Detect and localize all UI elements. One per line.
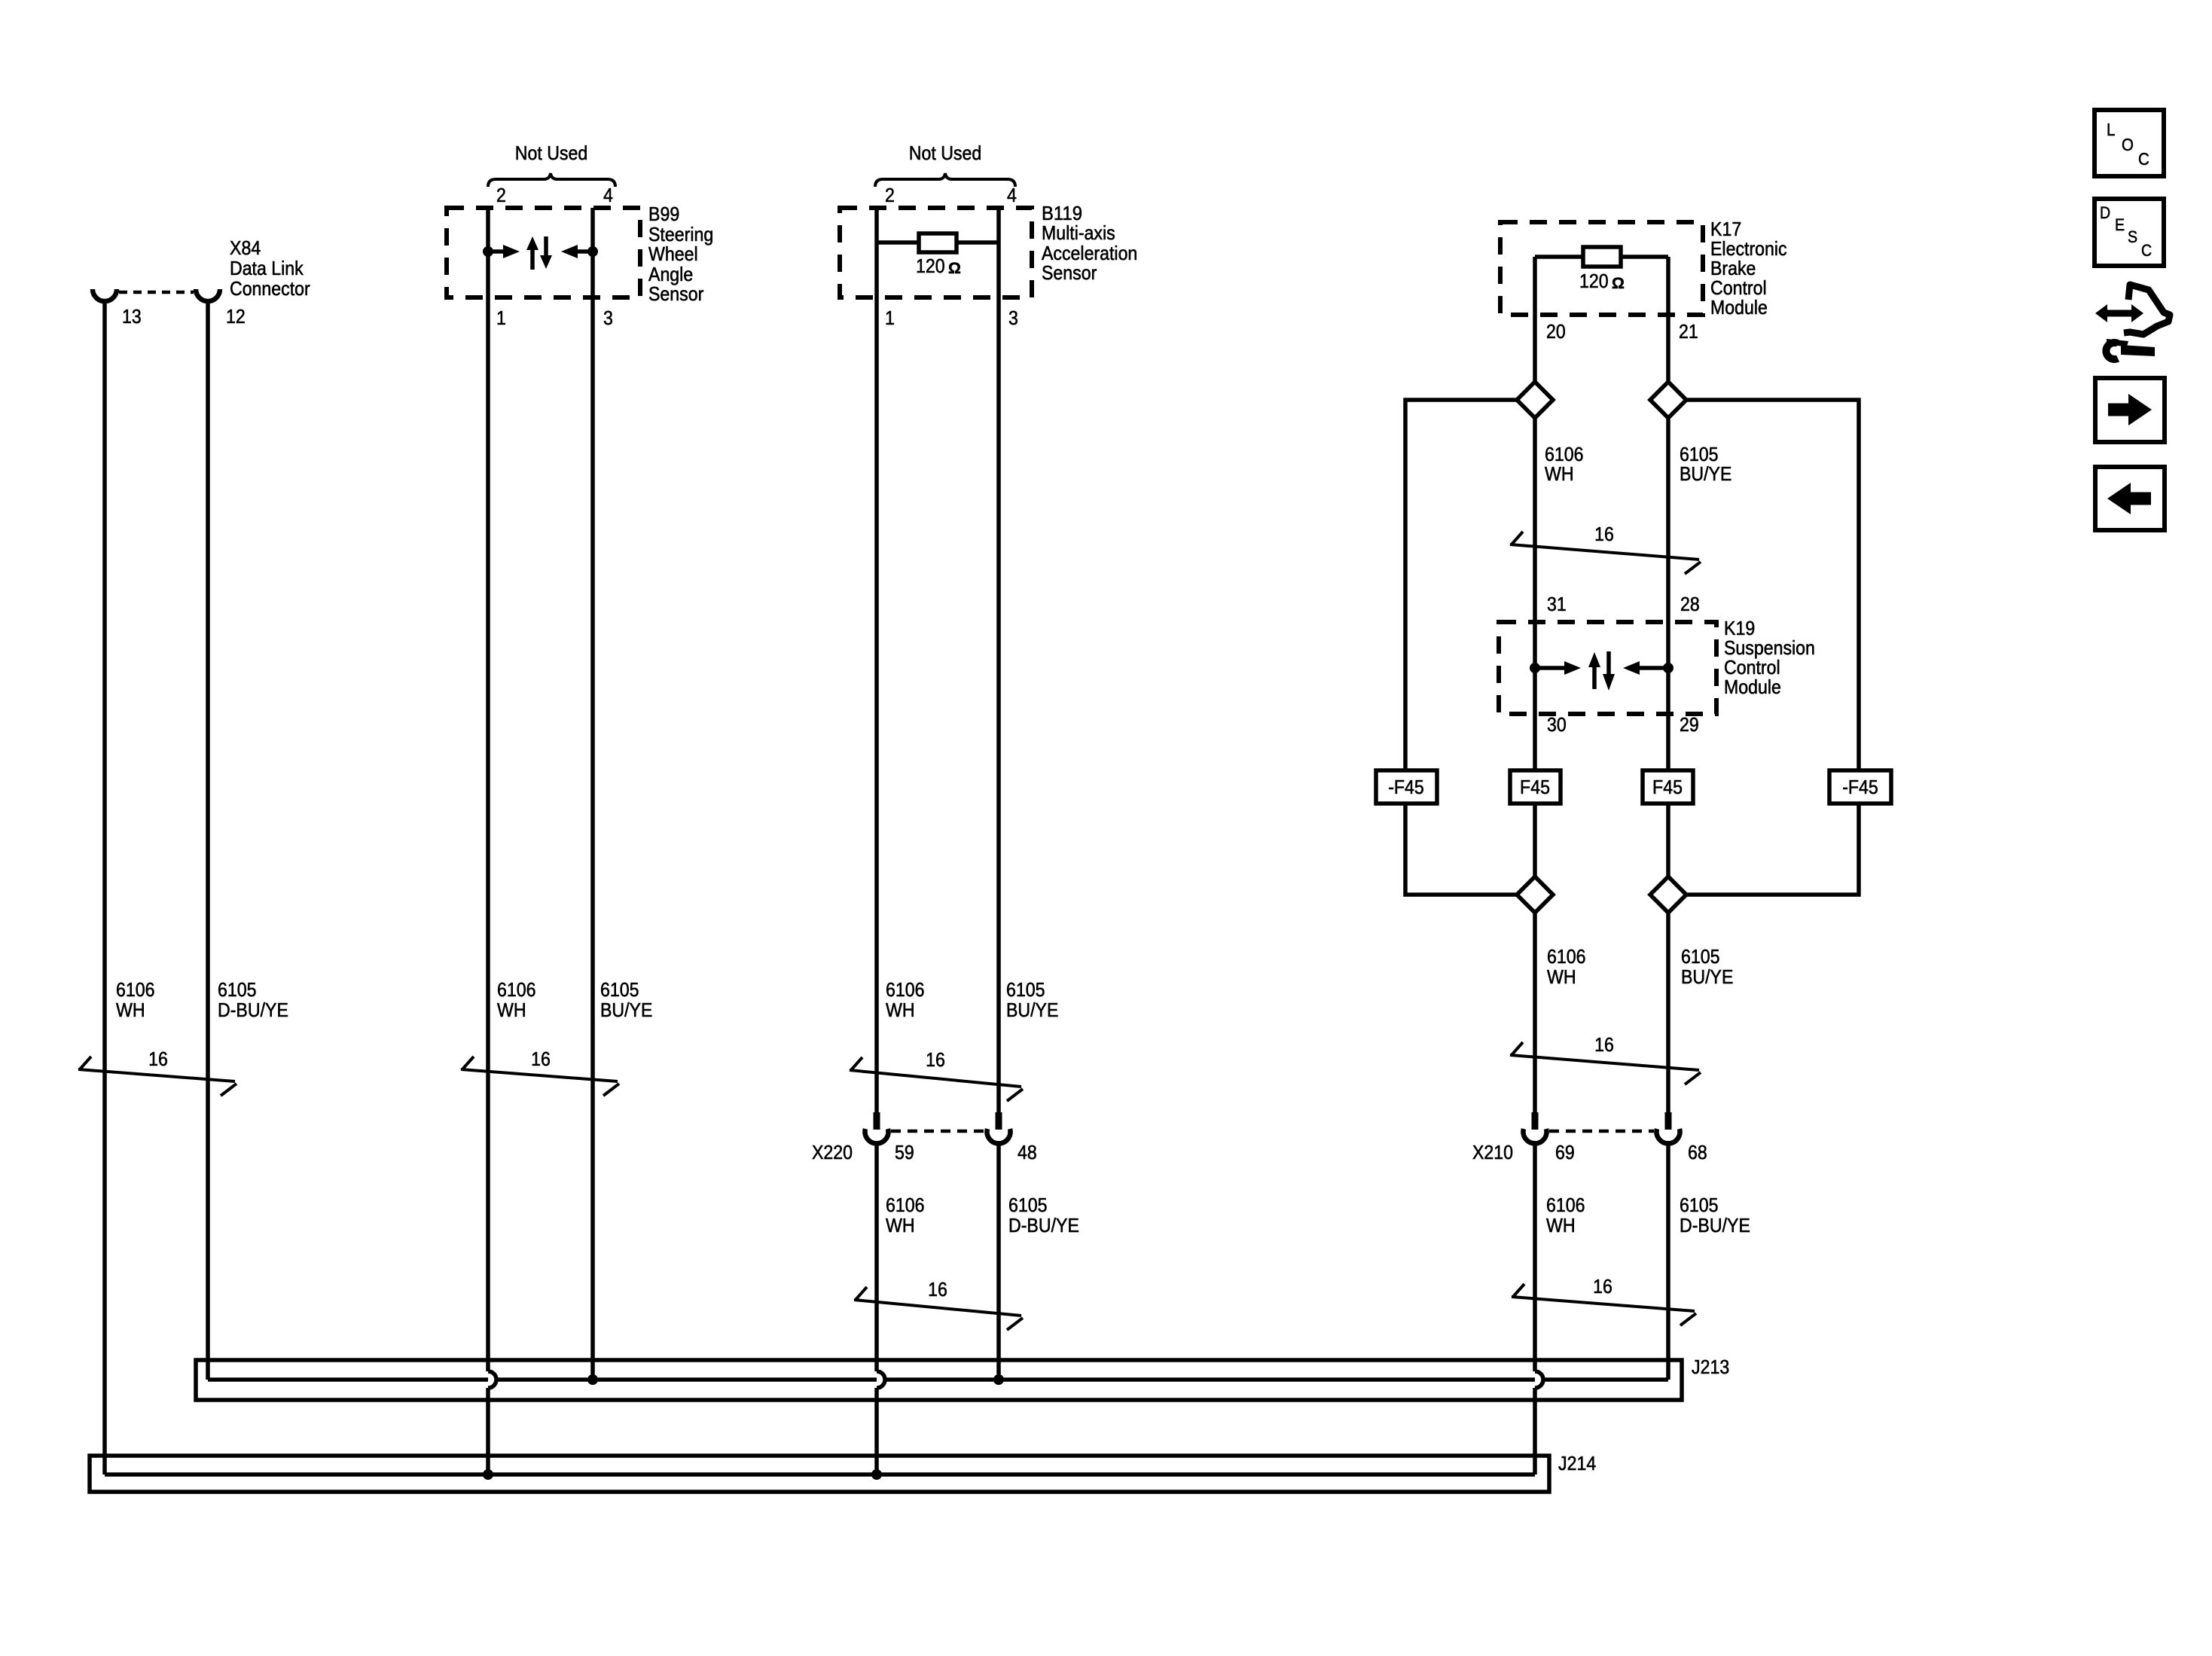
svg-text:Wheel: Wheel: [648, 242, 698, 265]
wire B119 internal resistor link: [877, 240, 999, 245]
svg-text:20: 20: [1546, 320, 1566, 343]
svg-text:3: 3: [603, 306, 613, 329]
svg-text:E: E: [2115, 215, 2125, 234]
fuse box F45 left: [1510, 770, 1561, 804]
svg-text:6105: 6105: [1681, 945, 1720, 968]
node B99 internal dot pin1: [483, 246, 493, 257]
svg-text:2: 2: [885, 184, 895, 206]
svg-text:120: 120: [1579, 270, 1609, 292]
svg-text:2: 2: [496, 184, 506, 206]
svg-text:21: 21: [1679, 320, 1698, 343]
wire left loop through -F45: [1405, 400, 1518, 895]
svg-text:WH: WH: [1546, 1214, 1576, 1237]
svg-text:6106: 6106: [886, 978, 925, 1001]
svg-text:WH: WH: [497, 999, 526, 1021]
svg-text:D-BU/YE: D-BU/YE: [1008, 1214, 1079, 1237]
svg-text:D: D: [2100, 203, 2110, 222]
svg-text:6105: 6105: [1680, 1194, 1719, 1216]
wire K17 internal resistor link: [1535, 255, 1668, 259]
svg-text:6106: 6106: [1546, 1194, 1585, 1216]
wire J214 internal bus: [105, 1472, 1535, 1477]
icon LOC box: [2095, 110, 2164, 176]
value 120 ohm label (K17): [1579, 270, 1625, 292]
svg-text:Multi-axis: Multi-axis: [1042, 221, 1115, 244]
node junction dot B119-1 wire on J214: [871, 1469, 882, 1480]
icon forward arrow box: [2095, 378, 2165, 442]
connector X210 male pin 68: [1665, 1112, 1672, 1130]
svg-text:16: 16: [531, 1048, 551, 1070]
node K19 internal dot pin31: [1530, 663, 1540, 673]
svg-text:D-BU/YE: D-BU/YE: [1680, 1214, 1750, 1237]
svg-text:WH: WH: [116, 999, 145, 1021]
svg-text:6106: 6106: [886, 1194, 925, 1216]
svg-text:29: 29: [1680, 713, 1699, 736]
svg-text:Sensor: Sensor: [648, 282, 704, 305]
svg-text:3: 3: [1008, 306, 1018, 329]
svg-text:28: 28: [1680, 593, 1700, 615]
fuse box F45 right: [1643, 770, 1693, 804]
splice pack J214 box: [90, 1456, 1549, 1492]
connector X210 male pin 69: [1532, 1112, 1539, 1130]
svg-text:12: 12: [226, 305, 246, 328]
svg-text:Connector: Connector: [230, 277, 310, 300]
resistor 120 ohm (B119): [919, 233, 956, 252]
K19 internal down arrow: [1606, 651, 1611, 676]
K19 internal up arrow: [1592, 666, 1597, 689]
node B99 internal dot pin3: [587, 246, 598, 257]
svg-text:-F45: -F45: [1842, 776, 1878, 798]
svg-text:6105: 6105: [600, 978, 639, 1001]
B99 internal left-pointing arrow: [578, 249, 593, 254]
value 120 ohm label (B119): [916, 255, 961, 277]
svg-text:X210: X210: [1472, 1141, 1513, 1163]
node junction dot B119-3 wire on J213: [993, 1374, 1004, 1385]
wire 6106 WH from X84 pin 13 to J214: [102, 303, 107, 1475]
svg-text:C: C: [2141, 241, 2152, 260]
connector X220 dashed link: [891, 1130, 984, 1133]
svg-text:BU/YE: BU/YE: [600, 999, 652, 1021]
wire 6105 D-BU/YE from X84 pin 12 to J213: [206, 303, 210, 1380]
svg-text:59: 59: [895, 1141, 914, 1163]
svg-text:WH: WH: [1545, 462, 1574, 485]
connector X84 dashed link: [119, 291, 194, 294]
node K19 internal dot pin28: [1663, 663, 1673, 673]
B99 Not Used bracket: [488, 173, 615, 187]
connector X84 hook pin 13: [93, 289, 117, 301]
svg-text:68: 68: [1688, 1141, 1707, 1163]
svg-text:16: 16: [926, 1048, 945, 1071]
wire hop of B99-1 wire over J213 bus: [488, 1371, 496, 1388]
svg-text:16: 16: [1594, 523, 1614, 545]
svg-text:Data Link: Data Link: [230, 257, 304, 279]
connector X220 hook 59: [865, 1129, 889, 1143]
icon back arrow box: [2095, 467, 2165, 530]
connector X210 hook 68: [1656, 1129, 1680, 1143]
icon DESC box: [2095, 199, 2164, 266]
label wire 6106 WH mid: [1547, 945, 1586, 988]
svg-text:O: O: [2122, 135, 2134, 154]
svg-text:Ω: Ω: [1612, 275, 1625, 292]
wire 6106 WH from B99 pin 1 to J214 (hops J213): [486, 208, 490, 1475]
svg-text:4: 4: [603, 184, 613, 206]
gauge 16 marker below X220: [854, 1278, 1023, 1330]
node splice diamond upper right: [1650, 382, 1686, 418]
resistor 120 ohm (K17): [1583, 247, 1621, 267]
svg-text:31: 31: [1547, 593, 1567, 615]
svg-text:69: 69: [1555, 1141, 1575, 1163]
label wire 6106 WH below X210: [1546, 1194, 1585, 1237]
svg-text:J213: J213: [1692, 1356, 1729, 1378]
svg-text:WH: WH: [886, 999, 915, 1021]
svg-text:Ω: Ω: [948, 260, 961, 277]
svg-text:1: 1: [496, 306, 506, 329]
svg-text:C: C: [2138, 149, 2149, 169]
svg-text:1: 1: [885, 306, 895, 329]
sensor B119 dashed box: [840, 208, 1032, 297]
svg-text:4: 4: [1007, 184, 1017, 206]
svg-text:X220: X220: [812, 1141, 853, 1163]
svg-text:120: 120: [916, 255, 945, 277]
svg-text:WH: WH: [886, 1214, 915, 1237]
svg-text:BU/YE: BU/YE: [1006, 999, 1058, 1021]
gauge 16 marker K17-K19: [1510, 523, 1701, 574]
svg-text:6105: 6105: [1008, 1194, 1048, 1216]
label B99 Steering Wheel Angle Sensor: [648, 203, 713, 305]
label wire 6105 D-BU/YE below X220: [1008, 1194, 1079, 1237]
K19 internal left-pointing arrow: [1640, 666, 1668, 670]
connector X220 male pin 59: [874, 1112, 880, 1130]
gauge 16 marker B99 pair: [461, 1048, 619, 1096]
label B119 Multi-axis Acceleration Sensor: [1042, 202, 1137, 284]
label wire 6106 WH left pair: [116, 978, 155, 1021]
connector X210 dashed link: [1549, 1130, 1654, 1133]
gauge 16 marker above X210: [1510, 1033, 1701, 1084]
svg-text:F45: F45: [1652, 776, 1683, 798]
svg-text:6106: 6106: [497, 978, 536, 1001]
svg-text:6105: 6105: [218, 978, 257, 1001]
node junction dot B99-1 wire on J214: [483, 1469, 493, 1480]
svg-text:16: 16: [148, 1048, 168, 1070]
label wire 6106 WH below X220: [886, 1194, 925, 1237]
module K17 dashed box: [1500, 222, 1703, 315]
label wire 6105 BU/YE mid: [1681, 945, 1733, 988]
node splice diamond lower right: [1650, 877, 1686, 913]
svg-text:WH: WH: [1547, 965, 1576, 988]
label wire 6105 BU/YE B99 pair: [600, 978, 652, 1021]
B99 internal right-pointing arrow: [488, 249, 503, 254]
svg-text:F45: F45: [1520, 776, 1550, 798]
K19 internal right-pointing arrow: [1535, 666, 1564, 670]
svg-text:S: S: [2128, 227, 2137, 246]
label K17 Electronic Brake Control Module: [1710, 218, 1787, 319]
svg-text:48: 48: [1018, 1141, 1037, 1163]
svg-text:BU/YE: BU/YE: [1680, 462, 1731, 485]
label wire 6105 D-BU/YE left pair: [218, 978, 288, 1021]
module K19 dashed box: [1499, 622, 1716, 714]
svg-text:30: 30: [1547, 713, 1567, 736]
gauge 16 marker B119 pair: [850, 1048, 1023, 1101]
wire hop of X210-69 wire over J213 bus: [1535, 1371, 1543, 1388]
svg-text:J214: J214: [1558, 1452, 1596, 1475]
fuse box -F45 right: [1829, 770, 1891, 804]
label wire 6106 WH B119 pair: [886, 978, 925, 1021]
wire 6105 BU/YE from B99 pin 3 to J213: [590, 208, 595, 1380]
svg-text:Module: Module: [1724, 676, 1781, 698]
label wire 6105 D-BU/YE below X210: [1680, 1194, 1750, 1237]
svg-text:L: L: [2107, 120, 2116, 139]
node splice diamond upper left: [1517, 382, 1553, 418]
connector X210 hook 69: [1524, 1129, 1547, 1143]
sensor B99 dashed box: [447, 208, 640, 297]
connector X220 hook 48: [987, 1129, 1011, 1143]
svg-text:X84: X84: [230, 236, 261, 259]
B99 internal down arrow: [544, 236, 548, 257]
svg-text:6106: 6106: [1547, 945, 1586, 968]
connector X84 hook pin 12: [196, 289, 220, 301]
connector X220 male pin 48: [996, 1112, 1002, 1130]
icon pointer with double arrow and wrench: [2095, 285, 2170, 359]
svg-text:Sensor: Sensor: [1042, 261, 1097, 284]
svg-text:16: 16: [1594, 1033, 1614, 1056]
label wire 6105 BU/YE B119 pair: [1006, 978, 1058, 1021]
label X84 Data Link Connector: [230, 236, 310, 300]
svg-text:6106: 6106: [116, 978, 155, 1001]
B99 internal up arrow: [530, 249, 535, 270]
svg-text:-F45: -F45: [1388, 776, 1424, 798]
label K19 Suspension Control Module: [1724, 617, 1815, 698]
svg-text:16: 16: [1593, 1275, 1612, 1298]
svg-text:D-BU/YE: D-BU/YE: [218, 999, 288, 1021]
label wire 6106 WH upper: [1545, 443, 1584, 485]
label wire 6105 BU/YE upper: [1680, 443, 1731, 485]
wire J213 internal bus: [208, 1377, 1668, 1382]
svg-text:B99: B99: [648, 203, 679, 225]
svg-text:13: 13: [122, 305, 142, 328]
wire hop of B119-1 wire over J213 bus: [877, 1371, 885, 1388]
wire 6106 WH from B119 pin 1 to X220 to J214 (hops J213): [874, 208, 879, 1475]
svg-text:16: 16: [928, 1278, 947, 1301]
splice pack J213 box: [196, 1360, 1682, 1400]
gauge 16 marker below X210: [1512, 1275, 1696, 1325]
node splice diamond lower left: [1517, 877, 1553, 913]
node junction dot B99-3 wire on J213: [587, 1374, 598, 1385]
B119 Not Used bracket: [875, 173, 1015, 187]
svg-text:6105: 6105: [1006, 978, 1045, 1001]
wire 6105 BU/YE from K17 pin 21 through K19/F45 to X210 to J213: [1666, 257, 1670, 1380]
svg-text:Module: Module: [1710, 296, 1768, 319]
wire 6105 from B119 pin 3 to X220 to J213: [996, 208, 1001, 1380]
gauge 16 marker X84 pair: [78, 1048, 236, 1096]
wire 6106 WH from K17 pin 20 through K19/F45 to X210 to J214 (hops J213): [1533, 257, 1537, 1475]
wire right loop through -F45: [1685, 400, 1859, 895]
fuse box -F45 left: [1376, 770, 1437, 804]
svg-text:BU/YE: BU/YE: [1681, 965, 1733, 988]
svg-text:Not Used: Not Used: [909, 142, 981, 164]
svg-text:Not Used: Not Used: [515, 142, 587, 164]
label wire 6106 WH B99 pair: [497, 978, 536, 1021]
